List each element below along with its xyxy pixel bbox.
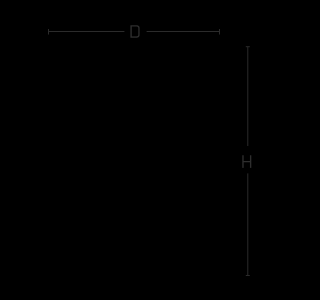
dimension H top end tick [246,46,250,48]
label H [242,155,251,168]
label D [130,25,139,38]
dimension line D left segment [48,31,124,33]
dimension D right end tick [219,29,221,35]
dimension D left end tick [48,29,50,35]
dimension H bottom end tick [246,275,250,277]
dimension line D right segment [147,31,220,33]
dimension line H top segment [247,47,249,146]
dimension line H bottom segment [247,173,249,275]
